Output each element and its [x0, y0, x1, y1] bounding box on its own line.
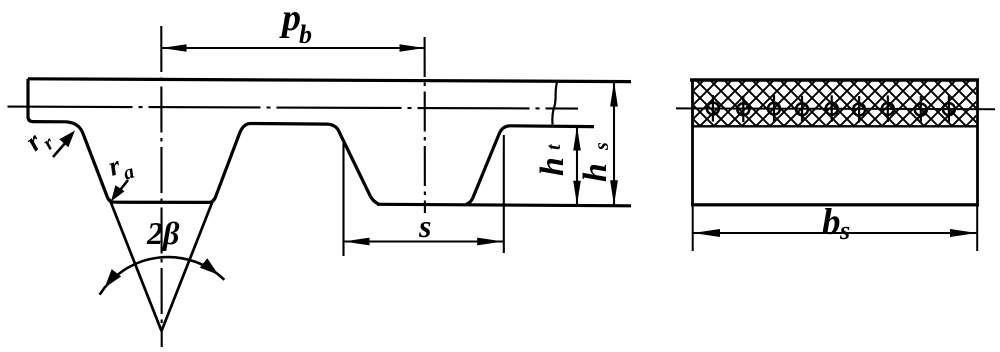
cross-section outline rectangle [693, 80, 978, 205]
svg-text:h: h [534, 157, 571, 176]
tension cord circle 1 [707, 103, 719, 115]
leader r_r arrow [53, 138, 70, 158]
svg-text:2β: 2β [146, 215, 180, 251]
dimension b_s line [693, 232, 977, 234]
svg-text:t: t [543, 143, 565, 150]
belt top line (with h_s extension) [28, 79, 631, 82]
svg-text:a: a [121, 161, 137, 185]
V flank extension left (2-beta construction) [110, 199, 162, 331]
cross-section hatched tension-member band [694, 82, 976, 127]
bottom reference line (tooth tip line with h extensions) [377, 204, 631, 206]
cord 1 vertical tick [712, 95, 714, 122]
svg-text:p: p [279, 0, 301, 39]
svg-text:s: s [591, 142, 613, 151]
cord 9 vertical tick [948, 96, 950, 123]
r_r label (rotated) [20, 121, 59, 162]
pitch line (dash-dot centre line) [8, 107, 579, 109]
dimension p_b line [162, 47, 425, 49]
tension cord circle 8 [915, 104, 927, 116]
dimension s extension line right [503, 135, 505, 253]
tension cord circle 3 [768, 103, 780, 115]
svg-text:s: s [839, 216, 850, 245]
dimension h_t line [576, 127, 578, 205]
b_s arrow right [950, 229, 977, 237]
h_t arrow up [573, 127, 581, 151]
2-beta arc arrow right [200, 258, 219, 275]
cord 6 vertical tick [858, 96, 860, 123]
h_t label (rotated) [534, 143, 571, 176]
svg-text:b: b [299, 20, 312, 49]
cord 4 vertical tick [801, 96, 803, 123]
land between tooth 1 and tooth 2 [250, 122, 328, 126]
h_t arrow down [573, 181, 581, 205]
dimension s extension line left [342, 143, 344, 256]
belt left edge [28, 79, 66, 122]
s arrow left [344, 238, 370, 246]
cord 7 vertical tick [887, 95, 889, 122]
V flank extension right [162, 199, 214, 331]
tooth 1 right flank and root fillet [209, 124, 251, 203]
tension cord circle 4 [796, 103, 808, 115]
dimension s line [344, 240, 504, 242]
b_s arrow left [693, 229, 720, 237]
dimension b_s extension line right [976, 205, 978, 251]
tension cord circle 9 [943, 103, 955, 115]
h_s label (rotated) [577, 142, 614, 182]
h_s arrow up [610, 82, 618, 107]
tooth 1 centre line [160, 26, 162, 347]
cord centre line [676, 107, 995, 110]
tooth 1 tip line [115, 201, 209, 204]
svg-text:b: b [822, 202, 841, 243]
tension cord circle 6 [853, 104, 865, 116]
p_b arrow right [400, 44, 425, 52]
tension cord circle 7 [882, 103, 894, 115]
tooth 2 right flank and root fillet [466, 126, 510, 205]
svg-text:s: s [418, 208, 431, 244]
dimension h_s line [613, 82, 615, 206]
cord 3 vertical tick [773, 95, 775, 122]
cord 5 vertical tick [831, 95, 833, 122]
tooth 2 left root fillet and flank [328, 124, 379, 204]
cross-section bottom edge [691, 203, 979, 206]
belt break line (right cut) [552, 81, 557, 125]
h_s arrow down [610, 180, 618, 205]
cord 2 vertical tick [742, 96, 744, 123]
svg-text:h: h [577, 163, 614, 182]
s arrow right [477, 238, 503, 246]
p_b arrow left [162, 44, 187, 52]
tooth 1 left root fillet and flank [66, 122, 115, 202]
tension cord circle 5 [826, 103, 838, 115]
2-beta angle arc [100, 257, 225, 295]
band bottom line [693, 125, 978, 127]
tension cord circle 2 [737, 103, 749, 115]
2-beta arc arrow left [105, 269, 122, 288]
leader r_a arrow [117, 180, 128, 194]
cross-section top edge (thick) [690, 78, 979, 82]
dimension b_s extension line left [692, 205, 694, 251]
r_a label (rotated) [105, 146, 137, 188]
land after tooth 2 (h_t extension) [510, 124, 594, 128]
cord 8 vertical tick [920, 96, 922, 123]
tooth 2 centre line [424, 37, 426, 213]
